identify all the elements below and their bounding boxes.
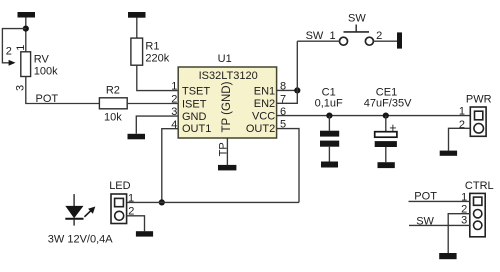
- node B (OUT1/OUT2/LED junction): [159, 199, 165, 205]
- svg-text:47uF/35V: 47uF/35V: [364, 97, 412, 109]
- node A (junction RV pin1/pin2/GND): [23, 26, 29, 32]
- svg-text:EN1: EN1: [254, 86, 275, 98]
- svg-text:IS32LT3120: IS32LT3120: [199, 70, 258, 82]
- wire switch pin1: [297, 40, 339, 42]
- connector LED pin2 circle: [115, 211, 124, 220]
- node E (CE1 on rail): [383, 113, 389, 119]
- svg-text:1: 1: [459, 105, 465, 117]
- svg-text:POT: POT: [36, 93, 59, 105]
- LED symbol light arrowhead: [88, 207, 95, 214]
- wire U1 pin8 EN1 to node C: [277, 89, 298, 91]
- svg-text:GND: GND: [182, 111, 207, 123]
- connector LED body: [111, 194, 127, 224]
- wire CTRL pin2 to G9: [448, 214, 470, 253]
- ground G3 (below U1 GND pin): [128, 134, 146, 140]
- svg-text:TP (GND): TP (GND): [221, 81, 233, 132]
- LED symbol cathode lead: [73, 219, 75, 226]
- capacitor C1 bottom plate: [320, 141, 339, 147]
- wire switch pin2: [373, 40, 397, 42]
- wire OUT2 vertical: [277, 129, 299, 203]
- ground G8 (below PWR): [440, 151, 457, 156]
- wire rail to C1: [328, 116, 330, 131]
- svg-text:3W 12V/0,4A: 3W 12V/0,4A: [48, 234, 113, 246]
- net SW wire (CTRL): [409, 224, 470, 226]
- net POT wire (CTRL): [409, 200, 470, 202]
- test point bar G4: [218, 165, 236, 171]
- svg-text:PWR: PWR: [466, 93, 492, 105]
- LED symbol triangle: [65, 206, 83, 218]
- wire U1 pin3 GND to G3: [136, 116, 178, 134]
- wire bottom rail LED pin1 to OUT2: [127, 201, 299, 203]
- connector CTRL pin1 square: [474, 197, 482, 205]
- net POT wire (RV to R2): [25, 103, 99, 105]
- connector CTRL pin2 circle: [474, 210, 482, 218]
- wire R2 to U1 pin2: [127, 103, 178, 105]
- svg-text:2: 2: [6, 45, 12, 57]
- connector PWR pin1 square: [475, 111, 483, 120]
- svg-text:ISET: ISET: [182, 99, 207, 111]
- svg-text:3: 3: [171, 106, 177, 118]
- wire R1 to U1 pin1: [137, 65, 178, 90]
- svg-text:4: 4: [171, 119, 177, 131]
- LED symbol anode lead: [73, 194, 75, 206]
- svg-text:RV: RV: [34, 53, 50, 65]
- wire U1 pin4 OUT1 down: [162, 129, 178, 203]
- svg-text:3: 3: [15, 85, 27, 91]
- capacitor CE1 negative plate: [375, 141, 397, 147]
- wire rail to CE1: [385, 116, 387, 132]
- svg-text:1: 1: [171, 80, 177, 92]
- svg-text:R2: R2: [106, 84, 120, 96]
- switch SW contact 1: [340, 37, 348, 45]
- node C (EN1/EN2/SW junction): [294, 87, 300, 93]
- svg-text:R1: R1: [145, 40, 159, 52]
- connector PWR body: [470, 107, 486, 136]
- potentiometer RV body: [21, 52, 31, 77]
- switch SW contact 2: [365, 37, 373, 45]
- wire LED pin2 to G7: [127, 216, 145, 231]
- ground G7 (below LED): [136, 231, 153, 236]
- ground G1 (above RV): [18, 12, 36, 18]
- node D (C1 on rail): [326, 113, 332, 119]
- svg-text:1: 1: [15, 45, 27, 51]
- wire RV pin3 down: [25, 77, 27, 104]
- svg-text:EN2: EN2: [254, 98, 275, 110]
- svg-text:220k: 220k: [145, 53, 169, 65]
- connector CTRL pin3 circle: [474, 221, 482, 229]
- svg-text:5: 5: [280, 119, 286, 131]
- switch SW actuator bar: [344, 31, 370, 33]
- ground G9 (below CTRL): [439, 253, 456, 259]
- svg-text:10k: 10k: [104, 111, 122, 123]
- svg-text:TP: TP: [217, 142, 229, 156]
- svg-text:CTRL: CTRL: [465, 180, 494, 192]
- ground G10 (switch, vertical bar): [397, 32, 402, 48]
- svg-text:LED: LED: [109, 180, 130, 192]
- svg-text:2: 2: [376, 30, 382, 42]
- svg-text:6: 6: [280, 106, 286, 118]
- svg-text:SW: SW: [348, 13, 366, 25]
- wire C1 to G5: [328, 147, 330, 162]
- wire PWR pin2 to G8: [449, 128, 471, 150]
- LED symbol cathode bar: [65, 218, 83, 220]
- resistor R1 body: [131, 38, 143, 65]
- wire VCC rail: [277, 115, 471, 117]
- wire RV wiper loop: [2, 29, 25, 63]
- connector CTRL body: [470, 193, 485, 236]
- wire G1 to RV pin1: [25, 18, 27, 53]
- svg-text:1: 1: [330, 30, 336, 42]
- svg-text:OUT2: OUT2: [246, 123, 275, 135]
- wire EN1 to EN2 tie: [277, 90, 298, 103]
- connector PWR pin2 circle: [474, 124, 484, 134]
- svg-text:VCC: VCC: [252, 111, 275, 123]
- svg-text:0,1uF: 0,1uF: [315, 97, 343, 109]
- switch SW actuator tick: [355, 25, 357, 32]
- capacitor CE1 positive plate (hollow): [375, 132, 397, 138]
- potentiometer RV wiper arrowhead (pin 2): [9, 60, 16, 66]
- wire CE1 to G6: [385, 147, 387, 162]
- svg-text:TSET: TSET: [182, 86, 210, 98]
- svg-text:100k: 100k: [34, 66, 58, 78]
- ground G5 (below C1): [321, 162, 338, 168]
- resistor R2 body: [99, 98, 127, 109]
- capacitor C1 top plate: [320, 131, 339, 137]
- wire G2 to R1: [136, 18, 138, 39]
- svg-text:OUT1: OUT1: [182, 123, 211, 135]
- connector LED pin1 square: [115, 198, 124, 206]
- svg-text:2: 2: [171, 93, 177, 105]
- op-amp U1 IS32LT3120 body: [178, 67, 276, 138]
- ground G2 (above R1): [128, 12, 146, 18]
- LED symbol light arrow: [84, 211, 91, 217]
- svg-text:1: 1: [128, 192, 134, 204]
- svg-text:U1: U1: [218, 53, 232, 65]
- wire U1 TP pin down: [226, 138, 228, 165]
- svg-text:SW: SW: [306, 30, 324, 42]
- svg-text:2: 2: [459, 119, 465, 131]
- svg-text:SW: SW: [416, 216, 434, 228]
- svg-text:POT: POT: [414, 191, 437, 203]
- ground G6 (below CE1): [378, 162, 395, 168]
- wire SW net vertical: [296, 41, 298, 90]
